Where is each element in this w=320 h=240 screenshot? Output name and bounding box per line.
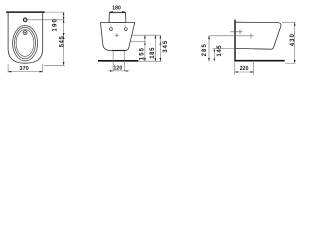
svg-text:430: 430 — [290, 33, 296, 46]
bottom extension line of 545 dimension — [44, 64, 65, 66]
120 dimension line — [108, 70, 129, 72]
bidet side profile — [236, 22, 281, 49]
extension line at drain level to right dims — [131, 34, 160, 36]
water inlet centerline — [230, 31, 242, 33]
drain tick — [250, 34, 252, 39]
underside extension line — [213, 48, 235, 50]
220 extension line left (wall) — [234, 62, 236, 75]
thin floor extension to dimension lines — [138, 60, 161, 62]
dimension line 155 — [144, 35, 146, 61]
inlet tick — [239, 30, 241, 35]
svg-text:120: 120 — [113, 65, 122, 71]
dimension line 185 — [154, 35, 156, 61]
drain extension line right — [124, 51, 126, 71]
120 right arrow (outside) — [125, 70, 128, 72]
vertical dimension line 190/545 — [63, 12, 65, 65]
svg-text:285: 285 — [202, 43, 208, 56]
arrow at bottom end — [63, 62, 65, 65]
chain arrow pair at mid — [63, 33, 65, 36]
hole centerline tick left — [110, 25, 112, 27]
bottom dark edge of bowl — [112, 50, 125, 52]
bowl outer rim (plan) — [13, 26, 38, 61]
120 left arrow (outside) — [110, 70, 113, 72]
arrow pair at tap hole level — [63, 17, 65, 20]
extension line at rim level to dim line 155 — [130, 40, 145, 42]
extension line from wall to vertical dimension line — [45, 11, 65, 13]
svg-text:155: 155 — [139, 47, 145, 60]
bowl middle rim (plan) — [15, 27, 36, 58]
svg-text:220: 220 — [240, 66, 249, 72]
dimension line 145 — [213, 49, 215, 62]
wall line (side view) — [234, 20, 236, 62]
180 dimension line — [109, 11, 125, 13]
bidet plan outline — [8, 12, 43, 63]
drain extension line left — [112, 51, 114, 71]
chain tick on 345 line — [160, 42, 162, 45]
370 dimension line — [8, 71, 43, 73]
180 left arrow — [109, 11, 112, 13]
bowl inner edge (plan) — [16, 30, 34, 57]
dimension line 345 — [159, 35, 161, 61]
hole centerline tick right — [125, 25, 127, 27]
spray nozzle in bowl — [23, 31, 27, 35]
370 extension line left — [7, 64, 9, 73]
floor line (side view) — [234, 60, 284, 62]
svg-text:145: 145 — [217, 45, 223, 57]
drain centerline / extension to left dims — [209, 35, 254, 37]
svg-text:190: 190 — [51, 18, 58, 32]
tap deck box — [109, 13, 126, 23]
body outline front view — [100, 22, 134, 50]
dimension line 285 — [208, 36, 210, 61]
svg-text:545: 545 — [59, 36, 65, 48]
svg-text:370: 370 — [20, 66, 29, 72]
370 extension line right — [42, 64, 44, 73]
svg-text:180: 180 — [112, 5, 121, 11]
370 left arrow — [8, 71, 11, 73]
430 top extension line — [282, 21, 295, 23]
svg-text:345: 345 — [163, 40, 169, 53]
370 right arrow — [40, 71, 43, 73]
180 right arrow — [122, 11, 125, 13]
220 dimension line — [235, 71, 254, 73]
arrow at wall end — [63, 12, 65, 15]
body shoulders line — [100, 21, 134, 23]
fixing hole left — [110, 28, 113, 31]
floor line (front view) — [98, 60, 138, 62]
chain tick on 155 line — [144, 42, 146, 45]
drain cross marker — [115, 34, 118, 36]
fixing hole right — [124, 28, 127, 31]
wall line (plan) — [6, 11, 45, 13]
svg-text:185: 185 — [150, 47, 156, 59]
430 bottom extension line — [285, 62, 295, 64]
dimension line 430 — [294, 22, 296, 63]
extension line at tap hole level — [28, 19, 65, 21]
220 extension line right — [253, 62, 255, 75]
tap hole — [23, 18, 27, 22]
